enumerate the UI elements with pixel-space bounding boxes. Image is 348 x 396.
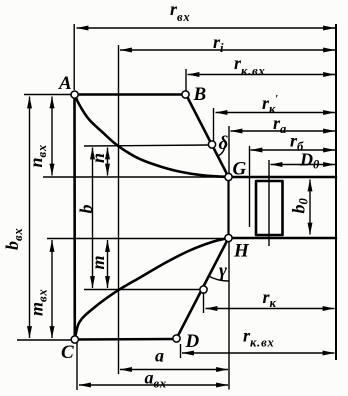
dimension r_k bottom <box>206 308 335 310</box>
dimension a_vx <box>79 384 228 386</box>
inlet edge A-C <box>73 95 76 340</box>
extension line above point G <box>228 126 230 173</box>
node G <box>225 173 232 180</box>
svg-text:a: a <box>155 346 164 366</box>
dimension m_vx <box>51 240 53 338</box>
extension line below point H <box>228 241 230 390</box>
node delta <box>208 141 215 148</box>
dimension r_a <box>231 130 336 132</box>
svg-text:A: A <box>58 73 72 94</box>
dimension r_k.vx bottom <box>182 352 335 354</box>
level line at delta-prime point <box>84 289 200 291</box>
svg-text:bвх: bвх <box>2 228 25 250</box>
dimension r_vx <box>77 27 336 29</box>
svg-text:rк.вх: rк.вх <box>243 326 275 350</box>
level line at H to left dimensions <box>47 238 226 240</box>
svg-text:D: D <box>185 331 200 352</box>
extension line above point B <box>185 69 187 91</box>
dimension r_i <box>120 49 335 51</box>
extension line vertical through figure at r_i / a <box>118 45 120 374</box>
node D <box>173 335 180 342</box>
level line at delta point <box>84 145 209 146</box>
dimension r_k-prime <box>216 112 336 114</box>
extension line below point C <box>76 343 78 390</box>
dimension m <box>107 240 109 288</box>
svg-text:δ: δ <box>219 133 229 154</box>
wall line A-B <box>75 93 187 96</box>
dimension r_b <box>251 149 336 151</box>
dimension n <box>107 148 109 176</box>
vane line B-G <box>186 95 229 178</box>
node H <box>225 234 232 241</box>
node A <box>71 91 78 98</box>
outlet wall H-right <box>229 237 337 240</box>
lower channel curve C-H <box>75 238 229 340</box>
dimension D_0 <box>271 164 336 166</box>
angle arc delta <box>218 146 225 156</box>
extension line above point A <box>73 24 75 90</box>
svg-text:C: C <box>61 342 74 363</box>
extension line above delta point <box>213 108 215 141</box>
extension line r_b <box>249 146 251 227</box>
svg-text:H: H <box>233 241 250 262</box>
svg-text:n: n <box>88 153 108 163</box>
outlet wall G-right <box>229 176 337 179</box>
extension line below delta-prime point <box>203 293 205 313</box>
dimension b_0 <box>309 180 311 235</box>
extension line below point D <box>180 344 182 358</box>
hub rectangle <box>256 181 283 235</box>
dimension b <box>92 148 94 289</box>
centerline D_0 through rectangle <box>268 160 270 246</box>
angle arc gamma <box>208 276 229 281</box>
node delta-prime <box>200 286 207 293</box>
vane line H-D <box>177 238 229 339</box>
upper channel curve A-G <box>75 95 229 178</box>
svg-text:rа: rа <box>273 113 287 136</box>
dimension r_k.vx top <box>188 74 336 76</box>
svg-text:m: m <box>88 255 108 269</box>
dimension a <box>120 369 228 371</box>
svg-text:γ: γ <box>219 261 227 282</box>
node B <box>182 91 189 98</box>
svg-text:B: B <box>193 84 207 105</box>
throat line G-H <box>227 177 229 238</box>
svg-text:G: G <box>233 159 247 180</box>
axis line right edge <box>335 24 337 360</box>
svg-text:D0: D0 <box>299 150 320 172</box>
level line at A to left dimensions <box>24 94 72 96</box>
svg-text:b0: b0 <box>289 197 311 213</box>
svg-text:b: b <box>76 205 96 214</box>
dimension b_vx <box>29 97 31 339</box>
wall line C-D <box>75 338 177 341</box>
svg-text:rвх: rвх <box>170 0 190 24</box>
node C <box>71 336 78 343</box>
svg-text:aвх: aвх <box>145 368 167 391</box>
level line at C to left dimensions <box>17 339 72 341</box>
svg-text:ri: ri <box>213 32 224 55</box>
dimension n_vx <box>51 97 53 176</box>
level line at G to left dimensions <box>43 176 226 178</box>
svg-text:rк: rк <box>263 287 277 310</box>
